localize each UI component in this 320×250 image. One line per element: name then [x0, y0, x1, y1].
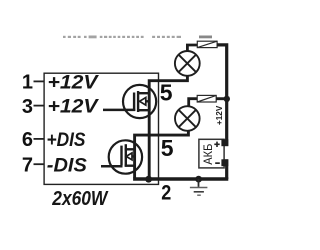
junction Q1 line / ground rail: [145, 176, 152, 183]
svg-text:1: 1: [22, 72, 33, 94]
svg-text:5: 5: [161, 135, 174, 161]
battery - terminal stub: [221, 159, 228, 166]
wire battery - terminal to ground rail: [225, 159, 228, 179]
svg-text:-DIS: -DIS: [47, 154, 87, 176]
svg-text:2x60W: 2x60W: [51, 188, 109, 210]
pin 7 stub wire: [34, 163, 45, 165]
wire fuse FU1 to +12V rail (top right corner): [217, 45, 227, 146]
fuse FU1: [197, 41, 217, 47]
wire gate Q1 from +12V pin3: [103, 109, 135, 112]
svg-text:+12V: +12V: [48, 71, 100, 93]
pin 1 stub wire: [34, 80, 45, 82]
svg-text:+DIS: +DIS: [47, 129, 86, 151]
svg-text:+12V: +12V: [215, 105, 224, 125]
battery minus mark: [215, 162, 220, 164]
lamp HL2: [175, 106, 200, 131]
MOSFET Q1: [123, 85, 156, 118]
svg-text:7: 7: [22, 154, 33, 176]
ground symbol: [190, 179, 208, 195]
wire fuse FU2 to +12V rail: [216, 97, 227, 100]
svg-text:3: 3: [22, 96, 33, 118]
ground junction dot: [195, 176, 202, 183]
lamp HL1: [175, 51, 200, 76]
ground rail wire (bottom): [133, 177, 228, 180]
svg-text:6: 6: [22, 129, 33, 151]
wire lamp HL1 top to fuse FU1: [187, 45, 197, 52]
wire lamp HL2 bottom to Q2 drain/source line down to ground rail: [135, 130, 189, 178]
amplifier block U1 (2x60W): [44, 73, 158, 184]
wire lamp HL1 bottom to Q1 drain/source line down to ground rail: [149, 75, 187, 179]
battery + terminal stub: [221, 139, 228, 146]
svg-text:5: 5: [160, 80, 173, 106]
pin 3 stub wire: [34, 105, 45, 107]
svg-text:АКБ: АКБ: [201, 144, 215, 165]
battery plus mark: [214, 144, 219, 146]
pin 6 stub wire: [34, 138, 45, 140]
wire gate Q2 from -DIS pin7: [101, 165, 123, 168]
svg-text:2: 2: [161, 182, 171, 205]
MOSFET Q2: [109, 140, 142, 173]
svg-text:+12V: +12V: [48, 96, 100, 118]
wire lamp HL2 top to fuse FU2: [189, 99, 198, 107]
fuse FU2: [197, 95, 216, 102]
junction +12V rail / fuse FU2: [224, 96, 230, 102]
cropped caption text remnant (gray dashes): [63, 36, 212, 39]
battery GB1 (AKB): [199, 139, 224, 168]
